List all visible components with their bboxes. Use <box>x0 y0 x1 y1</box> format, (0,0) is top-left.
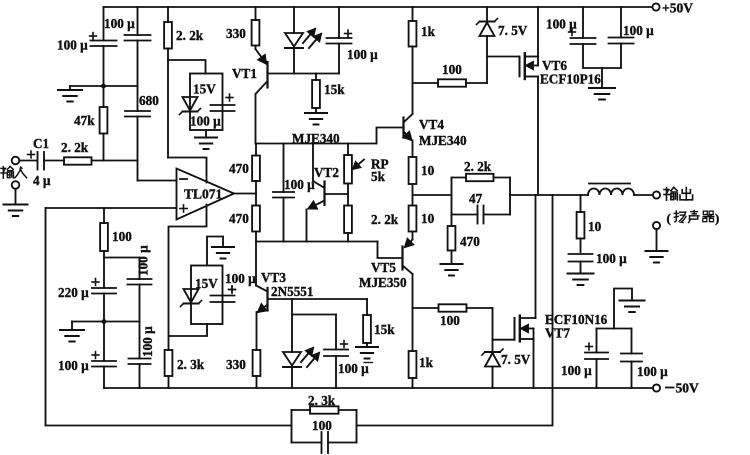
svg-text:15V: 15V <box>193 82 216 97</box>
svg-text:220 µ: 220 µ <box>58 285 89 300</box>
svg-text:7. 5V: 7. 5V <box>501 352 531 367</box>
svg-text:VT7: VT7 <box>545 326 570 341</box>
svg-text:100: 100 <box>442 62 462 77</box>
svg-text:C1: C1 <box>33 136 49 151</box>
svg-text:7. 5V: 7. 5V <box>498 23 528 38</box>
svg-text:50V: 50V <box>676 381 700 396</box>
svg-text:): ) <box>715 211 719 226</box>
svg-text:100 µ: 100 µ <box>140 326 155 357</box>
svg-text:100 µ: 100 µ <box>284 177 315 192</box>
svg-text:1k: 1k <box>419 355 434 370</box>
svg-text:+50V: +50V <box>662 1 693 16</box>
svg-text:2N5551: 2N5551 <box>271 284 314 299</box>
svg-text:ECF10P16: ECF10P16 <box>540 72 601 87</box>
svg-text:680: 680 <box>139 93 159 108</box>
svg-text:47k: 47k <box>74 113 95 128</box>
svg-text:330: 330 <box>226 357 246 372</box>
svg-text:100 µ: 100 µ <box>546 17 577 32</box>
svg-text:100 µ: 100 µ <box>347 47 378 62</box>
svg-text:5k: 5k <box>371 169 386 184</box>
svg-text:2. 3k: 2. 3k <box>177 357 205 372</box>
svg-text:VT4: VT4 <box>419 117 444 132</box>
svg-text:VT1: VT1 <box>232 66 257 81</box>
svg-text:2. 2k: 2. 2k <box>464 159 492 174</box>
svg-text:100: 100 <box>112 229 132 244</box>
svg-text:470: 470 <box>229 161 249 176</box>
svg-text:(: ( <box>667 211 671 226</box>
svg-text:100 µ: 100 µ <box>190 114 221 129</box>
svg-text:MJE340: MJE340 <box>292 131 340 146</box>
svg-text:10: 10 <box>421 211 435 226</box>
svg-text:470: 470 <box>460 234 480 249</box>
svg-text:15V: 15V <box>195 276 218 291</box>
svg-text:100 µ: 100 µ <box>637 364 668 379</box>
svg-text:2. 2k: 2. 2k <box>371 212 399 227</box>
svg-text:TL071: TL071 <box>184 187 223 202</box>
svg-text:4 µ: 4 µ <box>33 173 51 188</box>
svg-text:100 µ: 100 µ <box>561 363 592 378</box>
svg-text:100 µ: 100 µ <box>596 251 627 266</box>
svg-text:1k: 1k <box>421 24 436 39</box>
svg-text:2. 3k: 2. 3k <box>308 393 336 408</box>
svg-text:47: 47 <box>469 191 483 206</box>
svg-text:100 µ: 100 µ <box>58 358 89 373</box>
svg-text:10: 10 <box>421 163 435 178</box>
svg-text:10: 10 <box>588 219 602 234</box>
svg-text:100 µ: 100 µ <box>225 271 256 286</box>
svg-text:15k: 15k <box>374 322 395 337</box>
svg-text:100: 100 <box>312 418 332 433</box>
svg-text:100 µ: 100 µ <box>136 245 151 276</box>
svg-text:VT2: VT2 <box>314 165 339 180</box>
svg-text:2. 2k: 2. 2k <box>176 28 204 43</box>
svg-text:VT5: VT5 <box>371 260 396 275</box>
svg-text:2. 2k: 2. 2k <box>61 140 89 155</box>
svg-text:100: 100 <box>440 313 460 328</box>
svg-text:MJE340: MJE340 <box>419 133 467 148</box>
svg-text:100 µ: 100 µ <box>623 23 654 38</box>
svg-text:15k: 15k <box>324 82 345 97</box>
svg-text:330: 330 <box>226 26 246 41</box>
svg-text:100 µ: 100 µ <box>338 361 369 376</box>
svg-text:100 µ: 100 µ <box>104 16 135 31</box>
svg-text:470: 470 <box>229 211 249 226</box>
svg-text:VT3: VT3 <box>261 270 286 285</box>
svg-text:MJE350: MJE350 <box>359 275 407 290</box>
svg-text:100 µ: 100 µ <box>57 38 88 53</box>
